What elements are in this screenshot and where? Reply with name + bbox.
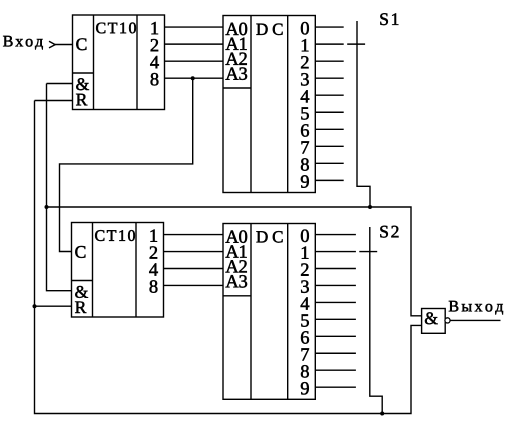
node Выход (output label) (449, 301, 503, 315)
pin label A0 (DD2) (225, 23, 247, 35)
pin label & (DD1) (76, 78, 89, 90)
label DC (DD4) (256, 231, 282, 242)
label CT10 (DD1) (96, 23, 136, 34)
pin label 4 (DD2) (301, 90, 310, 102)
wire DD4 output 2 contact (315, 268, 356, 270)
wire DD3 out 1 to DD4 A0 (164, 234, 224, 236)
pin label C (DD1) (76, 38, 86, 50)
pin label 8 (DD1) (151, 73, 159, 85)
wire DD2 output 0 contact (315, 26, 343, 28)
wire DD4 output 6 contact (315, 335, 356, 337)
pin label 4 (DD3) (149, 263, 158, 275)
pin label 1 (DD4) (302, 247, 309, 259)
wire DD2 output 4 contact (315, 94, 343, 96)
pin label 5 (DD2) (301, 107, 308, 119)
label S2 (380, 226, 398, 238)
wire R input of DD3 (35, 305, 72, 307)
label DC (DD2) (256, 24, 282, 35)
node Вход (input label) (3, 36, 43, 50)
pin label 8 (DD2) (301, 158, 309, 170)
switch S1 blade (selects output 1) (347, 43, 365, 45)
wire DD4 output 8 contact (315, 369, 356, 371)
pin label R (DD1) (76, 94, 87, 106)
wire DD4 output 0 contact (315, 234, 356, 236)
inverter bubble at DD5 output (445, 318, 450, 323)
pin label A1 (DD4) (225, 245, 246, 257)
wire DD3 out 2 to DD4 A1 (164, 251, 224, 253)
pin label A3 (DD4) (225, 275, 247, 287)
node junction S1 to gate wire (368, 205, 372, 209)
wire S1/&-bus horizontal to AND gate input (47, 207, 422, 316)
wire DD4 output 5 contact (315, 318, 356, 320)
label & (DD5) (425, 312, 438, 324)
AND gate DD5 body (422, 309, 446, 334)
node junction on 8-output (191, 76, 195, 80)
wire DD2 output 5 contact (315, 111, 343, 113)
pin label 7 (DD4) (301, 348, 309, 360)
wire DD2 output 7 contact (315, 145, 343, 147)
wire DD4 output 9 contact (315, 386, 356, 388)
pin label & (DD3) (75, 286, 88, 298)
pin label 1 (DD3) (151, 229, 158, 241)
wire R input of DD1 (35, 100, 73, 102)
counter DD1 (CT10) body (73, 15, 165, 110)
node junction S2 to bottom wire (380, 412, 384, 416)
switch S2 bus (common line) (370, 227, 382, 414)
decoder DD2 (DC) body (223, 16, 315, 193)
pin label 1 (DD1) (152, 22, 159, 34)
wire DD1 out 1 to DD2 A0 (165, 26, 224, 28)
wire DD1 out 2 to DD2 A1 (165, 43, 224, 45)
pin label 3 (DD4) (301, 280, 309, 292)
pin label 6 (DD2) (301, 124, 309, 136)
pin label 4 (DD1) (150, 56, 159, 68)
pin label C (DD3) (75, 246, 85, 258)
wire input to counter DD1 pin C (55, 44, 73, 46)
wire DD2 output 8 contact (315, 162, 343, 164)
pin label 0 (DD2) (301, 22, 309, 34)
pin label 8 (DD4) (301, 365, 309, 377)
wire output (450, 319, 500, 321)
wire DD2 output 2 contact (315, 60, 343, 62)
pin label A1 (DD2) (225, 38, 246, 50)
pin label 7 (DD2) (301, 141, 309, 153)
pin label 6 (DD4) (301, 331, 309, 343)
wire DD1 out 8 to DD2 A3 (165, 77, 224, 79)
pin label 8 (DD3) (150, 280, 158, 292)
wire DD4 output 7 contact (315, 352, 356, 354)
pin label 2 (DD3) (150, 246, 157, 258)
node junction & bus at y=207 (45, 205, 49, 209)
wire DD2 output 6 contact (315, 128, 343, 130)
wire DD2 output 3 contact (315, 77, 343, 79)
pin label 1 (DD2) (302, 39, 309, 51)
pin label A2 (DD4) (225, 260, 246, 272)
wire DD1 out 4 to DD2 A2 (165, 60, 224, 62)
wire & bus vertical (DD1 & to DD3 &) (47, 84, 72, 291)
pin label 9 (DD4) (301, 382, 309, 394)
node junction R at DD3 (33, 304, 37, 308)
label CT10 (DD3) (95, 230, 135, 241)
wire & input of DD1 (47, 83, 73, 85)
counter DD3 (CT10) body (72, 223, 164, 318)
pin label R (DD3) (75, 301, 86, 313)
wire carry DD1 8-output to DD3 C input (60, 78, 193, 251)
pin label 2 (DD4) (301, 263, 308, 275)
pin label 3 (DD2) (301, 73, 309, 85)
wire DD2 output 9 contact (315, 179, 343, 181)
switch S1 bus (common line) (357, 21, 370, 207)
switch S2 blade (selects output 1) (359, 251, 377, 253)
pin label A2 (DD2) (225, 53, 246, 65)
wire R bus vertical and bottom return (35, 101, 422, 414)
pin label 2 (DD2) (301, 56, 308, 68)
pin label 4 (DD4) (301, 297, 310, 309)
wire DD4 output 4 contact (315, 301, 356, 303)
input arrow (49, 41, 55, 48)
pin label 5 (DD4) (301, 314, 308, 326)
wire DD3 out 8 to DD4 A3 (164, 284, 224, 286)
decoder DD4 (DC) body (223, 224, 315, 400)
pin label 2 (DD1) (151, 39, 158, 51)
wire DD4 output 1 contact (315, 251, 356, 253)
pin label A3 (DD2) (225, 67, 247, 79)
pin label A0 (DD4) (225, 230, 247, 242)
label S1 (380, 13, 398, 25)
pin label 9 (DD2) (301, 175, 309, 187)
wire DD2 output 1 contact (315, 43, 343, 45)
wire DD4 output 3 contact (315, 284, 356, 286)
wire DD3 out 4 to DD4 A2 (164, 268, 224, 270)
pin label 0 (DD4) (301, 230, 309, 242)
